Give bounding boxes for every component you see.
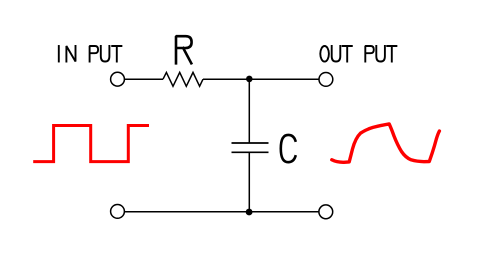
wire node to capacitor top plate: [248, 79, 250, 143]
wire capacitor bottom plate to bottom rail: [248, 152, 250, 211]
label OUT PUT: [320, 46, 396, 62]
resistor R: [163, 72, 203, 86]
label R (resistor value label): [176, 36, 192, 63]
bottom-left terminal (open circle): [111, 205, 125, 219]
label C (capacitor value label): [281, 135, 296, 162]
wire resistor to output terminal: [203, 78, 319, 80]
bottom rail wire: [125, 211, 319, 213]
label IN PUT: [59, 46, 122, 62]
output terminal (top-right open circle): [319, 73, 333, 87]
node junction bottom (filled dot): [246, 209, 253, 216]
input waveform (red square wave): [33, 126, 149, 162]
capacitor C top plate: [232, 142, 269, 144]
bottom-right terminal (open circle): [319, 205, 333, 219]
input terminal (top-left open circle): [111, 72, 125, 86]
node junction top (filled dot): [246, 76, 253, 83]
output waveform (red filtered wave): [332, 124, 440, 162]
wire input terminal to resistor: [125, 78, 163, 80]
capacitor C bottom plate: [232, 151, 269, 153]
